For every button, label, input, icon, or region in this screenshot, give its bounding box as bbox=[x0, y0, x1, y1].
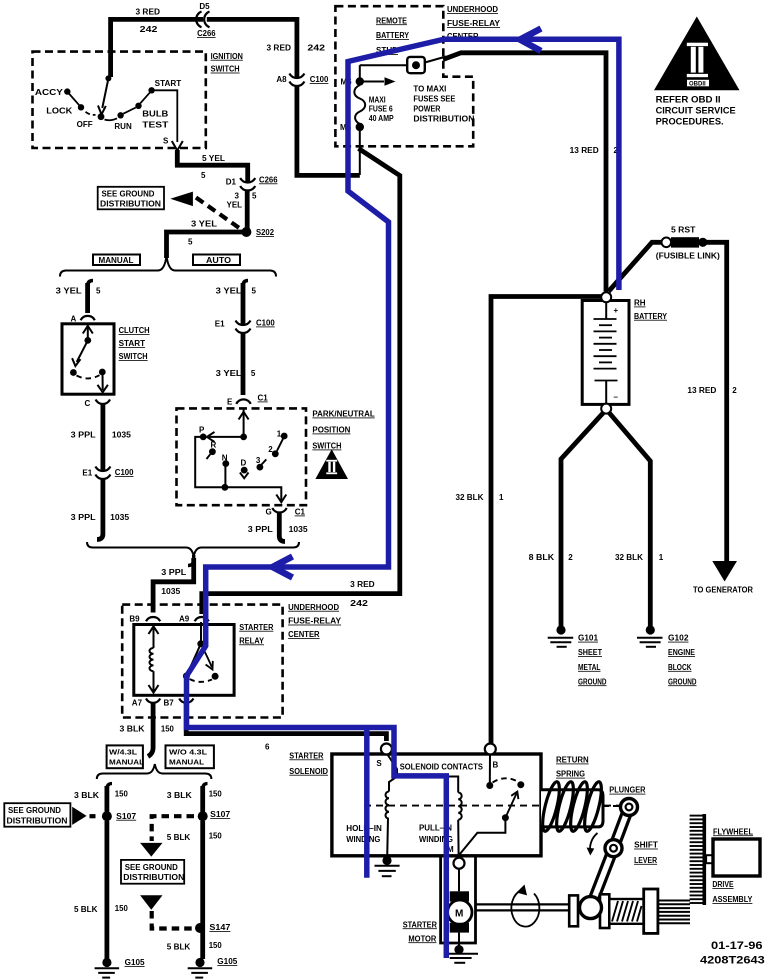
svg-text:REFER OBD II: REFER OBD II bbox=[656, 95, 721, 105]
svg-text:SWITCH: SWITCH bbox=[312, 442, 341, 451]
wire 6 from B7 to solenoid S bbox=[186, 704, 386, 752]
svg-text:3 YEL: 3 YEL bbox=[56, 286, 82, 295]
svg-text:FUSE 6: FUSE 6 bbox=[369, 104, 393, 113]
svg-text:B7: B7 bbox=[164, 698, 175, 707]
svg-text:DISTRIBUTION: DISTRIBUTION bbox=[413, 115, 474, 124]
svg-text:1035: 1035 bbox=[161, 587, 181, 596]
svg-text:4208T2643: 4208T2643 bbox=[700, 955, 765, 967]
solenoid contacts label bbox=[400, 763, 484, 772]
svg-text:1035: 1035 bbox=[110, 513, 130, 522]
fusible link 5 RST bbox=[656, 226, 720, 261]
OBD II triangle symbol bbox=[654, 17, 740, 127]
clutch start switch bbox=[62, 324, 150, 394]
svg-text:SPRING: SPRING bbox=[556, 770, 585, 779]
svg-text:UNDERHOOD: UNDERHOOD bbox=[288, 603, 339, 612]
svg-text:TO MAXI: TO MAXI bbox=[413, 85, 446, 94]
svg-text:C100: C100 bbox=[310, 75, 329, 84]
starter relay contacts bbox=[183, 622, 219, 697]
svg-text:E1: E1 bbox=[215, 320, 225, 329]
svg-text:C266: C266 bbox=[197, 29, 216, 38]
svg-text:C100: C100 bbox=[115, 468, 134, 477]
svg-text:A7: A7 bbox=[132, 698, 143, 707]
svg-text:S107: S107 bbox=[210, 810, 231, 819]
starter motor enclosure bbox=[441, 856, 476, 943]
svg-text:W/4.3L: W/4.3L bbox=[109, 749, 138, 756]
connector E1 C100 left bbox=[82, 467, 134, 480]
svg-text:MOTOR: MOTOR bbox=[408, 934, 436, 943]
svg-text:5: 5 bbox=[201, 171, 206, 180]
svg-text:2: 2 bbox=[568, 553, 573, 562]
wire 3 PPL 1035 lower left bbox=[71, 480, 130, 540]
underhood fuse-relay center dashed box (starter relay) bbox=[122, 605, 282, 718]
svg-text:5 RST: 5 RST bbox=[671, 226, 696, 235]
svg-text:MANUAL: MANUAL bbox=[99, 256, 134, 265]
blue arrow top bbox=[520, 29, 541, 52]
ground G105 right bbox=[188, 957, 238, 978]
label 13 RED 2 right bbox=[687, 386, 737, 395]
connector D1 C266 bbox=[226, 175, 278, 190]
svg-text:RH: RH bbox=[634, 299, 646, 308]
svg-text:TO GENERATOR: TO GENERATOR bbox=[693, 586, 753, 595]
flywheel bbox=[706, 827, 760, 904]
svg-text:POWER: POWER bbox=[413, 105, 440, 114]
svg-text:WINDING: WINDING bbox=[346, 835, 380, 844]
svg-text:+: + bbox=[614, 306, 619, 315]
svg-text:BLOCK: BLOCK bbox=[668, 663, 692, 672]
svg-text:PROCEDURES.: PROCEDURES. bbox=[656, 116, 724, 126]
svg-text:R: R bbox=[211, 440, 217, 449]
svg-text:FUSE-RELAY: FUSE-RELAY bbox=[288, 617, 342, 626]
svg-text:150: 150 bbox=[161, 724, 175, 733]
svg-text:ASSEMBLY: ASSEMBLY bbox=[712, 895, 753, 904]
svg-text:150: 150 bbox=[209, 832, 223, 841]
svg-text:1: 1 bbox=[499, 493, 504, 502]
svg-text:3 PPL: 3 PPL bbox=[71, 430, 96, 439]
svg-text:13 RED: 13 RED bbox=[570, 146, 599, 155]
svg-text:(FUSIBLE LINK): (FUSIBLE LINK) bbox=[656, 252, 720, 261]
svg-text:ACCY: ACCY bbox=[35, 88, 64, 97]
blue arrow middle bbox=[273, 557, 293, 578]
starter solenoid label bbox=[289, 751, 328, 775]
svg-text:1035: 1035 bbox=[112, 430, 132, 439]
splice S202 bbox=[241, 227, 274, 237]
starter motor bbox=[403, 869, 472, 946]
svg-text:MANUAL: MANUAL bbox=[109, 759, 145, 766]
brace merge to starter relay bbox=[87, 542, 299, 557]
underhood fuse-relay center label top bbox=[447, 5, 501, 41]
svg-text:BULB: BULB bbox=[142, 109, 168, 118]
connector G C1 bbox=[266, 508, 306, 517]
svg-text:C266: C266 bbox=[259, 175, 278, 184]
svg-text:150: 150 bbox=[115, 904, 129, 913]
svg-text:8 BLK: 8 BLK bbox=[529, 553, 555, 562]
svg-text:OBDII: OBDII bbox=[689, 81, 706, 87]
svg-text:DISTRIBUTION: DISTRIBUTION bbox=[100, 199, 161, 208]
svg-text:BATTERY: BATTERY bbox=[376, 31, 410, 40]
svg-text:5: 5 bbox=[96, 286, 101, 295]
svg-text:3 YEL: 3 YEL bbox=[216, 286, 242, 295]
battery RH bbox=[582, 292, 667, 413]
svg-text:PLUNGER: PLUNGER bbox=[609, 786, 645, 795]
svg-text:OFF: OFF bbox=[77, 120, 93, 129]
svg-text:SWITCH: SWITCH bbox=[211, 65, 240, 74]
wire battery positive to solenoid B 32 BLK bbox=[491, 297, 601, 744]
svg-text:3 PPL: 3 PPL bbox=[161, 568, 186, 577]
ground G105 left bbox=[95, 958, 146, 978]
svg-text:5 YEL: 5 YEL bbox=[202, 154, 225, 163]
svg-text:STARTER: STARTER bbox=[403, 920, 437, 929]
date stamp bbox=[700, 940, 765, 967]
park/neutral position switch dashed box bbox=[177, 408, 307, 505]
splice S147 bbox=[195, 923, 231, 933]
ground G101 bbox=[548, 625, 607, 686]
svg-text:E: E bbox=[227, 398, 233, 407]
hold-in winding bbox=[346, 792, 389, 858]
svg-text:FUSE-RELAY: FUSE-RELAY bbox=[447, 19, 501, 28]
underhood fuse-relay center label (relay) bbox=[288, 603, 342, 639]
svg-text:CLUTCH: CLUTCH bbox=[119, 326, 150, 335]
svg-text:5 BLK: 5 BLK bbox=[167, 943, 191, 952]
svg-text:P: P bbox=[199, 425, 205, 434]
connector B7 bbox=[164, 698, 194, 707]
connector A8 C100 bbox=[289, 74, 304, 86]
svg-text:32 BLK: 32 BLK bbox=[456, 493, 484, 502]
wire battery negative forks bbox=[561, 412, 650, 627]
svg-text:G101: G101 bbox=[578, 634, 599, 643]
svg-text:5 BLK: 5 BLK bbox=[167, 833, 191, 842]
svg-text:TEST: TEST bbox=[142, 121, 168, 130]
svg-text:A8: A8 bbox=[276, 75, 287, 84]
label MANUAL box bbox=[93, 255, 140, 266]
svg-text:S147: S147 bbox=[209, 923, 231, 932]
svg-text:1: 1 bbox=[659, 553, 664, 562]
drive shaft from motor bbox=[476, 885, 570, 927]
maxi fuse 6 bbox=[340, 77, 396, 132]
wire 3 BLK 150 from A7 bbox=[120, 704, 175, 757]
svg-text:BATTERY: BATTERY bbox=[634, 312, 668, 321]
svg-text:MAXI: MAXI bbox=[369, 96, 386, 105]
svg-text:REMOTE: REMOTE bbox=[376, 16, 408, 25]
small OBD II triangle bbox=[315, 449, 348, 479]
wire 3 PPL 1035 to relay B9 bbox=[153, 555, 194, 613]
wire fusible link to generator bbox=[704, 242, 727, 562]
wire 3 YEL manual branch bbox=[56, 281, 101, 314]
svg-text:S: S bbox=[163, 137, 169, 146]
wire 3 YEL to manual/auto brace bbox=[167, 232, 245, 258]
arrow TO GENERATOR bbox=[693, 561, 753, 595]
wire 3 RED 242 heavy feed to starter relay A9 bbox=[202, 149, 400, 615]
connector A9 bbox=[179, 614, 209, 623]
svg-text:FUSES SEE: FUSES SEE bbox=[413, 95, 456, 104]
to maxi fuses note bbox=[413, 85, 474, 124]
ground G102 bbox=[637, 625, 697, 686]
label W/4.3L MANUAL box bbox=[107, 745, 145, 768]
svg-text:SOLENOID CONTACTS: SOLENOID CONTACTS bbox=[400, 763, 484, 772]
svg-text:W/O 4.3L: W/O 4.3L bbox=[169, 749, 208, 756]
svg-text:E1: E1 bbox=[82, 469, 92, 478]
svg-text:G105: G105 bbox=[217, 957, 238, 966]
wire 3 BLK 150 left branch bbox=[74, 784, 128, 813]
label 32 BLK 1 lower bbox=[615, 553, 664, 562]
svg-text:S202: S202 bbox=[256, 228, 275, 237]
svg-text:3 RED: 3 RED bbox=[136, 7, 161, 16]
wire battery to fusible link bbox=[609, 242, 662, 291]
svg-text:5: 5 bbox=[188, 238, 193, 247]
svg-text:CENTER: CENTER bbox=[288, 630, 320, 639]
svg-text:C100: C100 bbox=[256, 319, 275, 328]
svg-text:RELAY: RELAY bbox=[239, 636, 264, 645]
svg-text:METAL: METAL bbox=[578, 663, 601, 672]
wire 5 YEL from ignition S bbox=[177, 150, 247, 182]
splice S107 left bbox=[102, 811, 137, 821]
solenoid S internal wiring bbox=[388, 755, 459, 793]
svg-text:D1: D1 bbox=[226, 177, 237, 186]
svg-text:G102: G102 bbox=[668, 634, 689, 643]
svg-text:G: G bbox=[266, 508, 272, 517]
svg-text:AUTO: AUTO bbox=[206, 256, 231, 265]
svg-text:PARK/NEUTRAL: PARK/NEUTRAL bbox=[312, 410, 374, 419]
svg-text:2: 2 bbox=[268, 445, 273, 454]
solenoid terminal S bbox=[376, 744, 392, 769]
wire 3 RED 242 ignition feed bbox=[111, 19, 297, 77]
wire 13 RED 2 battery feed bbox=[443, 53, 606, 292]
svg-text:START: START bbox=[119, 339, 146, 348]
wire 3 RED 242 from A8 to fuse junction bbox=[297, 86, 360, 176]
svg-text:MANUAL: MANUAL bbox=[169, 759, 205, 766]
svg-text:STARTER: STARTER bbox=[239, 623, 273, 632]
svg-text:242: 242 bbox=[307, 44, 325, 53]
svg-text:SHIFT: SHIFT bbox=[634, 841, 658, 850]
svg-text:G105: G105 bbox=[125, 958, 146, 967]
svg-text:S107: S107 bbox=[116, 812, 137, 821]
svg-text:FLYWHEEL: FLYWHEEL bbox=[713, 827, 753, 836]
remote battery stud / fuse center dashed outline bbox=[335, 6, 473, 146]
svg-text:RUN: RUN bbox=[114, 122, 132, 131]
connector A clutch start switch bbox=[71, 315, 95, 324]
svg-text:3 BLK: 3 BLK bbox=[167, 791, 192, 800]
svg-text:5 BLK: 5 BLK bbox=[74, 905, 98, 914]
svg-text:3 PPL: 3 PPL bbox=[71, 513, 96, 522]
brace w43l split bbox=[97, 764, 212, 779]
svg-text:STARTER: STARTER bbox=[289, 751, 323, 760]
svg-text:150: 150 bbox=[209, 941, 223, 950]
svg-text:1: 1 bbox=[277, 429, 282, 438]
svg-text:150: 150 bbox=[115, 789, 129, 798]
return spring and plunger bbox=[539, 756, 645, 833]
svg-text:3 RED: 3 RED bbox=[267, 44, 292, 53]
connector D5 C266 bbox=[196, 12, 209, 28]
svg-text:SEE GROUND: SEE GROUND bbox=[125, 863, 178, 872]
svg-text:D5: D5 bbox=[199, 2, 210, 11]
svg-text:A: A bbox=[71, 315, 77, 324]
svg-text:B9: B9 bbox=[129, 614, 140, 623]
connector A7 bbox=[132, 698, 160, 707]
blue circuit highlight path bbox=[187, 39, 619, 958]
svg-text:D: D bbox=[241, 458, 247, 467]
svg-text:SEE GROUND: SEE GROUND bbox=[8, 806, 61, 815]
solenoid terminal B bbox=[485, 744, 499, 770]
svg-text:242: 242 bbox=[140, 25, 158, 34]
battery stud bbox=[360, 57, 446, 79]
connector E C1 bbox=[227, 394, 268, 407]
solenoid M terminal bbox=[454, 858, 465, 869]
svg-text:IGNITION: IGNITION bbox=[211, 52, 243, 61]
wire 5 BLK 150 left to G105 bbox=[74, 821, 128, 959]
svg-text:SHEET: SHEET bbox=[578, 648, 602, 657]
svg-text:13 RED: 13 RED bbox=[687, 386, 716, 395]
label 3 RED 242 top bbox=[136, 2, 329, 84]
wire 3 YEL 5 to S202 bbox=[245, 191, 250, 229]
starter motor ground bbox=[446, 945, 478, 963]
solenoid contact mechanism bbox=[459, 755, 524, 856]
svg-text:3 PPL: 3 PPL bbox=[248, 525, 273, 534]
svg-text:3 RED: 3 RED bbox=[350, 580, 375, 589]
svg-text:6: 6 bbox=[265, 743, 270, 752]
flywheel ring gear bbox=[690, 814, 705, 905]
label W/O 4.3L MANUAL box bbox=[166, 745, 214, 768]
splice S107 right bbox=[198, 810, 231, 821]
svg-text:ENGINE: ENGINE bbox=[668, 648, 696, 657]
svg-text:C1: C1 bbox=[295, 508, 306, 517]
solenoid dashed centerline bbox=[364, 805, 621, 807]
hold-in ground bbox=[375, 856, 400, 876]
park/neutral position switch label bbox=[312, 410, 374, 451]
wire 3 PPL 1035 from C bbox=[71, 405, 132, 471]
see ground distribution arrow (S202) bbox=[98, 187, 240, 229]
svg-text:150: 150 bbox=[209, 789, 223, 798]
starter relay coil bbox=[149, 626, 159, 693]
shift lever bbox=[587, 799, 659, 908]
park/neutral position switch internals bbox=[195, 409, 287, 502]
wire 3 YEL auto branch bbox=[216, 281, 257, 325]
svg-text:3 BLK: 3 BLK bbox=[120, 724, 145, 733]
svg-text:242: 242 bbox=[350, 599, 368, 608]
ignition switch dashed box bbox=[33, 52, 206, 148]
svg-text:1035: 1035 bbox=[289, 525, 309, 534]
svg-text:01-17-96: 01-17-96 bbox=[711, 940, 763, 952]
wire 5 BLK 150 right to G105 bbox=[167, 821, 222, 959]
label 32 BLK 1 bbox=[456, 493, 505, 502]
svg-text:SEE GROUND: SEE GROUND bbox=[102, 189, 155, 198]
label 3 RED 242 relay feed bbox=[350, 580, 375, 608]
svg-text:C: C bbox=[85, 399, 91, 408]
svg-text:40 AMP: 40 AMP bbox=[369, 114, 395, 123]
see ground distribution arrow left bbox=[4, 803, 99, 827]
connector E1 C100 right bbox=[215, 319, 275, 334]
svg-text:3 BLK: 3 BLK bbox=[74, 791, 99, 800]
svg-text:3: 3 bbox=[235, 191, 240, 200]
svg-text:B: B bbox=[493, 761, 499, 770]
svg-text:CIRCUIT SERVICE: CIRCUIT SERVICE bbox=[656, 106, 736, 116]
ignition switch component bbox=[35, 52, 243, 151]
svg-text:3 YEL: 3 YEL bbox=[216, 369, 242, 378]
svg-text:M: M bbox=[455, 909, 463, 920]
wire 3 PPL 1035 from G bbox=[248, 513, 308, 542]
drive assembly collars and gear bbox=[569, 889, 690, 933]
label 13 RED 2 upper bbox=[570, 146, 619, 155]
connector B9 bbox=[129, 614, 160, 623]
svg-text:DISTRIBUTION: DISTRIBUTION bbox=[123, 873, 184, 882]
starter relay box bbox=[134, 623, 274, 696]
connector C clutch start switch bbox=[85, 399, 111, 408]
svg-text:POSITION: POSITION bbox=[312, 426, 350, 435]
remote battery stud labels bbox=[376, 16, 410, 55]
svg-text:C1: C1 bbox=[258, 394, 269, 403]
pull-in winding bbox=[419, 793, 462, 856]
wire 3 YEL 5 to park/neutral bbox=[216, 334, 256, 396]
svg-text:N: N bbox=[222, 453, 228, 462]
svg-text:LOCK: LOCK bbox=[46, 107, 72, 116]
svg-text:LEVER: LEVER bbox=[634, 856, 657, 865]
svg-text:SOLENOID: SOLENOID bbox=[289, 767, 328, 776]
svg-text:DISTRIBUTION: DISTRIBUTION bbox=[7, 816, 68, 825]
label AUTO box bbox=[193, 255, 240, 266]
svg-text:DRIVE: DRIVE bbox=[712, 880, 734, 889]
svg-text:SWITCH: SWITCH bbox=[119, 352, 148, 361]
svg-text:2: 2 bbox=[732, 386, 737, 395]
svg-text:32 BLK: 32 BLK bbox=[615, 553, 643, 562]
label 8 BLK 2 bbox=[529, 553, 574, 562]
wire fuse output thin bbox=[359, 129, 361, 175]
svg-text:3 YEL: 3 YEL bbox=[191, 219, 217, 228]
svg-text:5: 5 bbox=[252, 286, 257, 295]
svg-text:S: S bbox=[376, 759, 382, 768]
svg-text:–: – bbox=[614, 393, 619, 402]
starter solenoid box bbox=[332, 754, 541, 856]
see ground distribution center dashed links bbox=[121, 816, 222, 928]
wire 3 BLK 150 right branch bbox=[167, 784, 222, 813]
svg-text:GROUND: GROUND bbox=[668, 677, 697, 686]
svg-text:RETURN: RETURN bbox=[556, 756, 589, 765]
brace manual/auto split bbox=[60, 256, 276, 277]
svg-text:UNDERHOOD: UNDERHOOD bbox=[447, 5, 498, 14]
svg-text:5: 5 bbox=[252, 191, 257, 200]
svg-text:3: 3 bbox=[256, 456, 261, 465]
svg-text:GROUND: GROUND bbox=[578, 677, 607, 686]
svg-text:YEL: YEL bbox=[227, 201, 243, 210]
svg-text:5: 5 bbox=[251, 369, 256, 378]
svg-text:A9: A9 bbox=[179, 614, 190, 623]
svg-text:START: START bbox=[155, 79, 182, 88]
